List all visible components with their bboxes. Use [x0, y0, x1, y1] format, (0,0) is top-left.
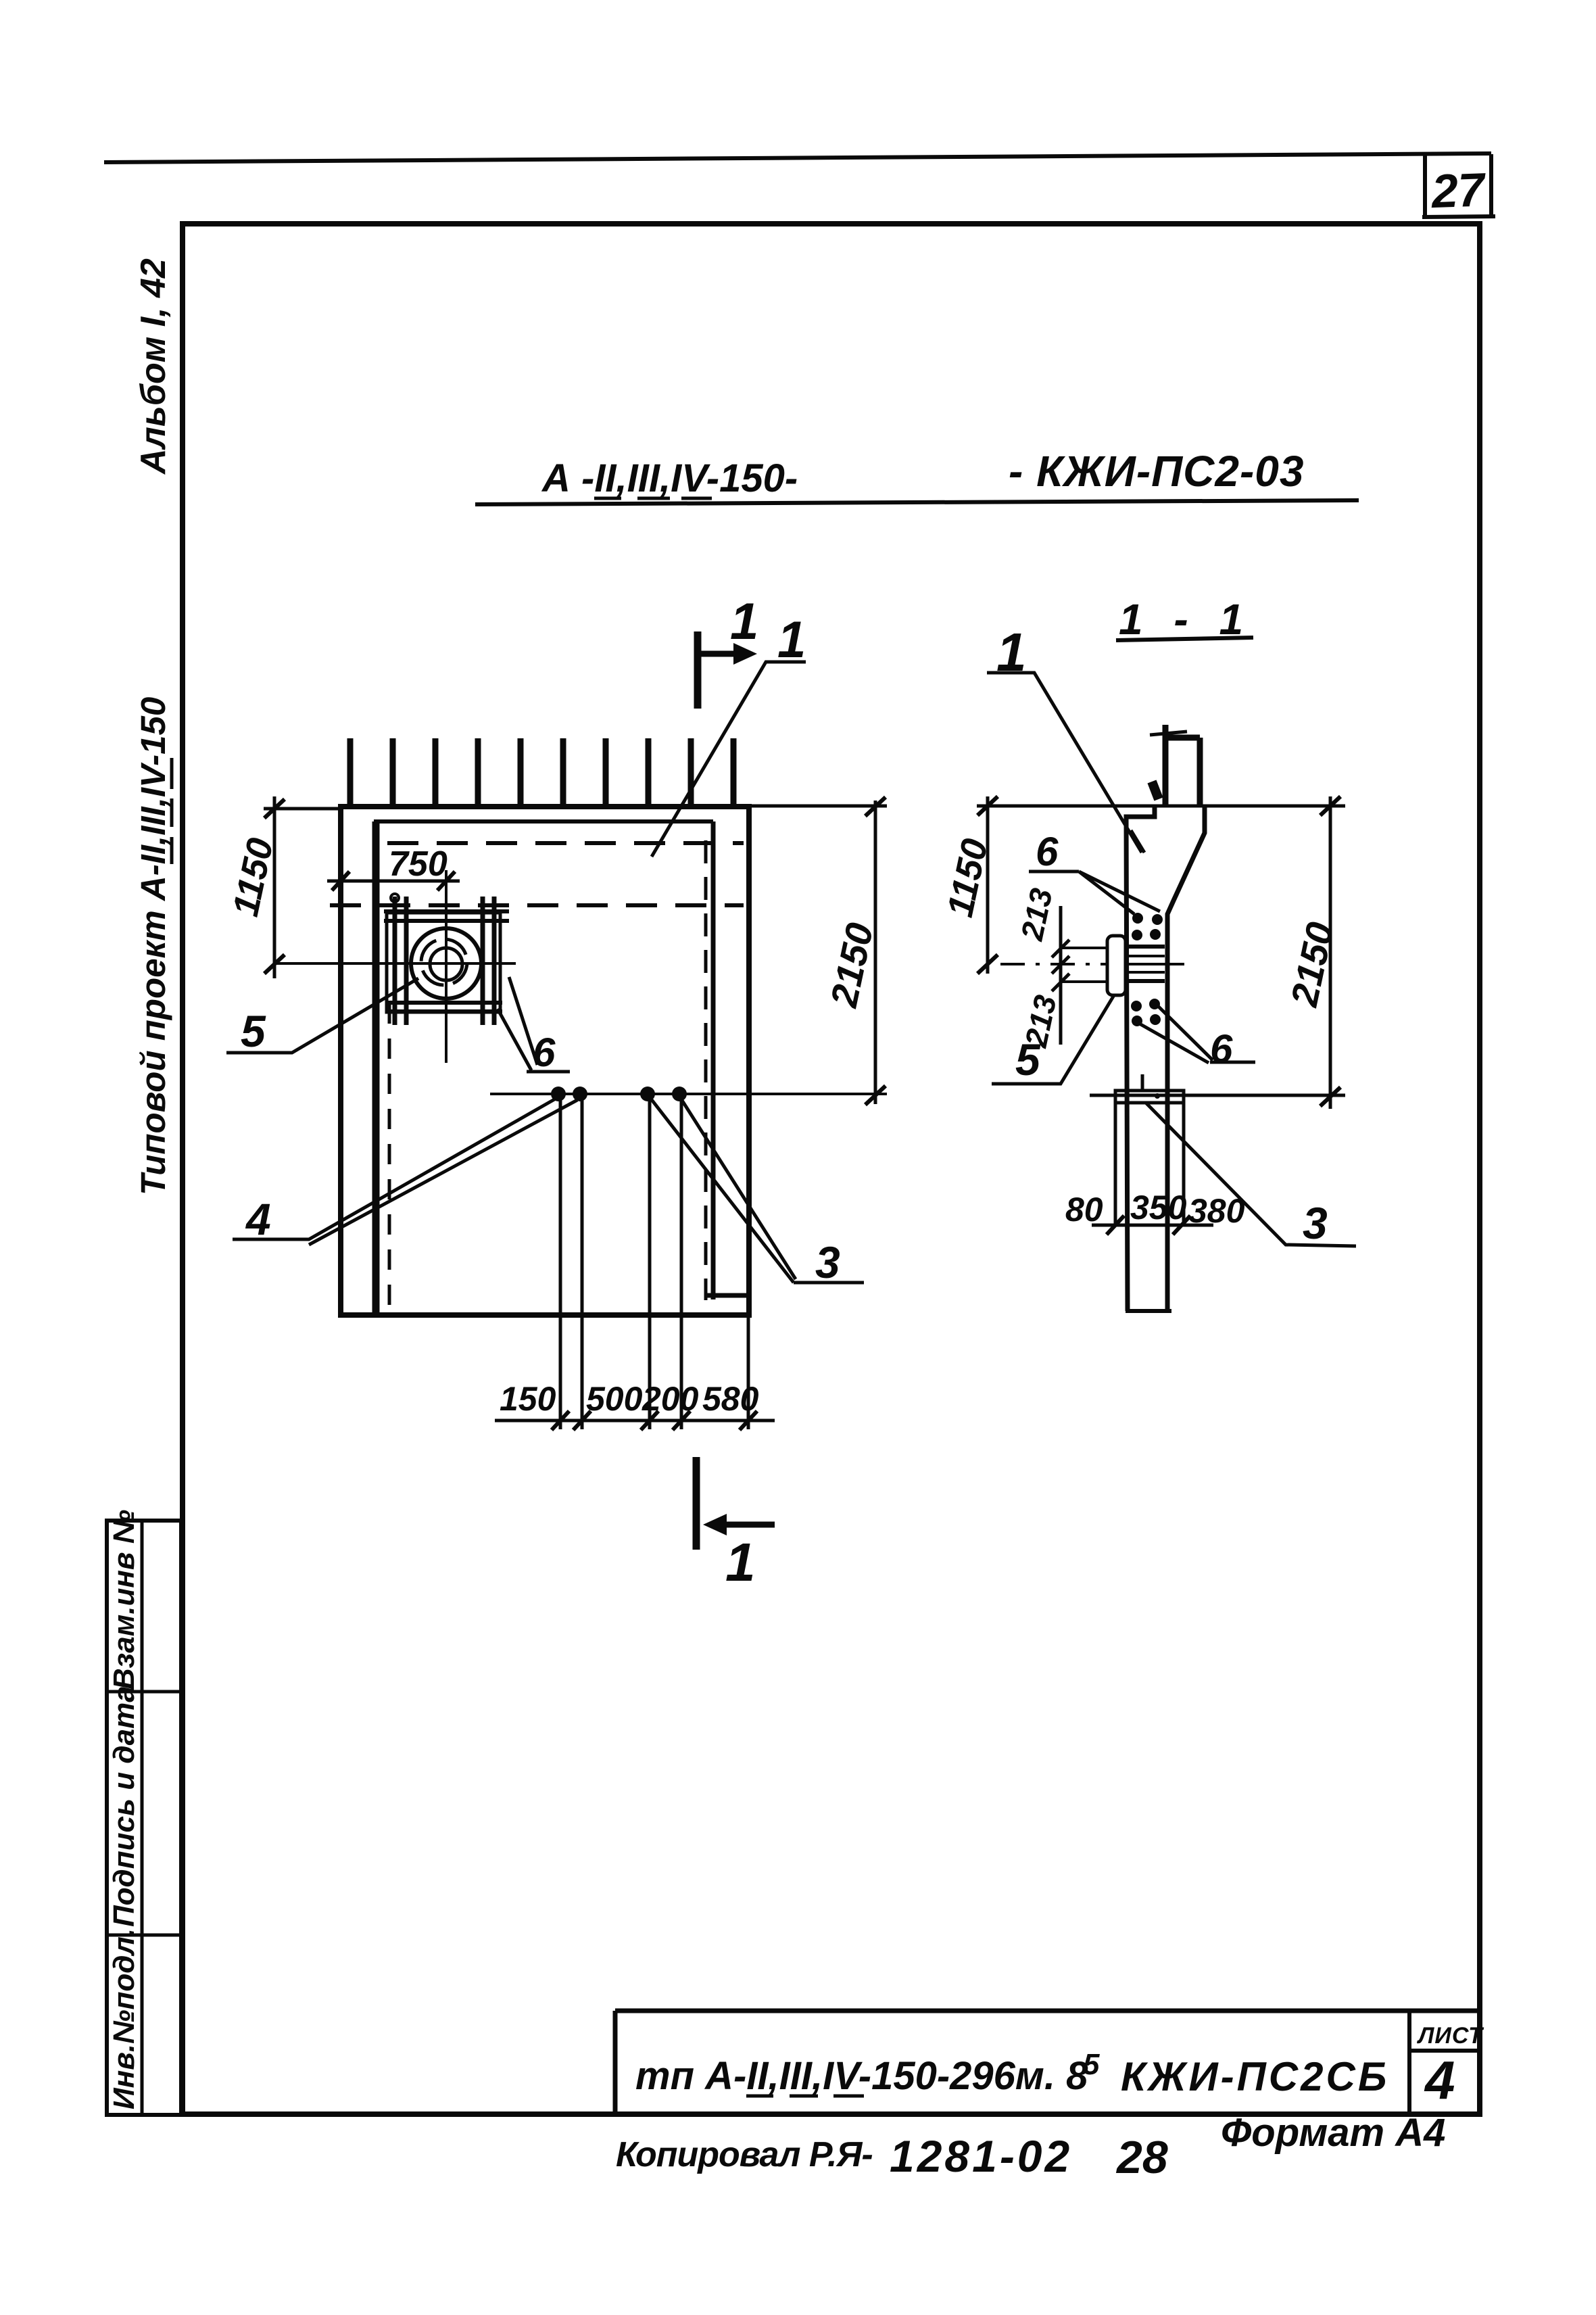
ext line upper plate: [1061, 947, 1109, 949]
dimension 1150 vertical line: [273, 796, 276, 978]
dim 1150 right: line: [986, 796, 990, 974]
label 4 leader: [233, 1099, 577, 1245]
dim 2150 right: line: [1329, 796, 1332, 1109]
bottom dimension line: [495, 1419, 775, 1423]
embed vertical rebar pair right: [483, 897, 494, 1025]
rebar dowel ticks on top: [350, 738, 733, 807]
embed centerline right part: [1126, 963, 1184, 965]
tick: [1052, 956, 1069, 974]
label 1 leader: [987, 673, 1144, 853]
svg-text:Инв.№подл.: Инв.№подл.: [107, 1928, 141, 2109]
numeral underscores title block: [746, 2095, 864, 2098]
strip divider 1: [107, 1690, 181, 1694]
embed vertical centerline: [445, 870, 448, 1063]
tick: [977, 955, 998, 974]
collar sleeve: [1115, 1091, 1184, 1225]
section title underline: [1116, 638, 1253, 640]
tick: [673, 1411, 690, 1430]
svg-text:200: 200: [642, 1380, 699, 1418]
anchor dot a: [551, 1087, 566, 1101]
svg-text:6: 6: [1210, 1026, 1233, 1072]
tick: [1173, 1216, 1190, 1235]
middle circle: [421, 939, 467, 985]
label 6 lower leader: [1137, 1005, 1255, 1063]
dimension 2150 vertical line: [874, 801, 877, 1104]
label 6 upper leader: [1029, 872, 1160, 914]
column top hook: [1165, 725, 1200, 805]
extension verticals from dots: [560, 1094, 681, 1429]
svg-text:3: 3: [1303, 1198, 1328, 1248]
anchor dot b: [573, 1087, 587, 1101]
column outline left: [1126, 805, 1155, 1311]
panel inner rectangle top edge: [374, 819, 713, 824]
anchor dot d: [672, 1087, 687, 1101]
svg-text:тп А-II,III,IV-150-296м. 8: тп А-II,III,IV-150-296м. 8: [635, 2054, 1088, 2098]
svg-text:ЛИСТ: ЛИСТ: [1416, 2023, 1484, 2049]
tick: [1320, 796, 1340, 815]
svg-text:- КЖИ-ПС2-03: - КЖИ-ПС2-03: [1009, 447, 1304, 496]
svg-text:Копировал Р.Я-: Копировал Р.Я-: [616, 2135, 873, 2174]
panel inner right edge: [706, 821, 748, 1299]
svg-text:Подпись и дата: Подпись и дата: [107, 1686, 141, 1927]
arrowhead: [703, 1514, 727, 1535]
tick: [552, 1411, 569, 1430]
svg-text:750: 750: [389, 844, 448, 884]
bottom dim line right view: [1092, 1224, 1213, 1227]
collar center tick: [1141, 1074, 1144, 1092]
tick: [264, 799, 285, 818]
embed horizontal rebar pair bottom: [385, 1003, 502, 1011]
embed line 4: [1126, 979, 1165, 983]
hidden dash line lower left: [388, 1003, 391, 1312]
small circle on rebar top: [391, 894, 399, 902]
ext line lower plate: [1061, 980, 1109, 983]
section mark bottom arrow: [717, 1522, 775, 1528]
tick: [865, 797, 886, 816]
svg-text:1: 1: [725, 1532, 756, 1592]
section mark bottom vertical: [693, 1457, 700, 1550]
panel inner left double line: [372, 821, 380, 1315]
extension line top right: [749, 805, 887, 808]
svg-text:580: 580: [702, 1380, 759, 1418]
embed line 3: [1126, 971, 1165, 974]
inner circle: [430, 948, 462, 980]
top rule line: [104, 153, 1491, 162]
list box divider horizontal: [1409, 2049, 1480, 2053]
hook top tick: [1150, 732, 1187, 735]
label 6 leader: [498, 977, 570, 1072]
anchor dots axis line: [490, 1093, 887, 1095]
left margin rotated text: Типовой проект: [134, 697, 172, 1195]
svg-text:500: 500: [586, 1380, 643, 1418]
column outline right: [1167, 805, 1205, 1311]
svg-text:Взам.инв №: Взам.инв №: [107, 1510, 141, 1690]
section mark top vertical: [694, 631, 702, 709]
hidden dash-dot line near right edge: [704, 840, 708, 1300]
svg-text:1: 1: [777, 611, 806, 669]
section mark top arrow: [701, 651, 740, 657]
dim 213 lines: [1059, 906, 1063, 1045]
tick: [740, 1411, 757, 1430]
svg-text:80: 80: [1065, 1191, 1103, 1228]
label 5 leader: [226, 978, 418, 1053]
svg-text:5: 5: [241, 1006, 266, 1056]
embed plate lines across column: [1126, 945, 1165, 949]
collar band dot: [1155, 1093, 1160, 1099]
hidden dashed line upper: [387, 841, 744, 845]
lifting loop outer circle: [411, 928, 481, 999]
header underline: [475, 500, 1359, 504]
svg-text:150: 150: [500, 1380, 556, 1418]
svg-text:1281-02: 1281-02: [890, 2131, 1072, 2181]
tick: [264, 955, 285, 974]
tick: [1052, 974, 1069, 991]
embed horizontal rebar pair top: [384, 911, 509, 921]
panel outer rectangle: [341, 807, 749, 1315]
title block top line: [615, 2009, 1480, 2013]
top extension line across: [977, 805, 1345, 808]
label 5 leader: [992, 995, 1114, 1084]
svg-text:Типовой проект А-II,III,IV-150: Типовой проект А-II,III,IV-150: [134, 697, 172, 1195]
label 3 leader: [1146, 1103, 1356, 1246]
svg-text:4: 4: [245, 1194, 271, 1244]
tick: [641, 1411, 658, 1430]
svg-text:5: 5: [1083, 2048, 1100, 2081]
list box divider vertical: [1407, 2011, 1411, 2114]
svg-text:А -II,III,IV-150-: А -II,III,IV-150-: [541, 456, 798, 500]
page number box: [1422, 154, 1495, 218]
numeral underscores header: [594, 497, 712, 500]
tick: [332, 872, 349, 890]
tick: [1107, 1216, 1124, 1235]
hidden dashed line lower: [330, 903, 744, 907]
title block left edge: [613, 2011, 618, 2114]
embed vertical rebar pair left: [395, 897, 406, 1025]
svg-text:1: 1: [730, 593, 758, 650]
tick: [977, 796, 998, 815]
leader ink blob: [1152, 782, 1159, 799]
tick: [1052, 940, 1069, 957]
svg-text:КЖИ-ПС2СБ: КЖИ-ПС2СБ: [1121, 2054, 1389, 2099]
extension from panel corner: [747, 1315, 750, 1429]
label 3 leader: [650, 1098, 864, 1283]
panel leader line: [652, 662, 806, 857]
embed centerline: [1000, 963, 1107, 965]
tick: [865, 1086, 886, 1105]
rebar dots upper group: [1132, 913, 1143, 924]
tick: [1320, 1087, 1340, 1106]
embed line 2: [1126, 955, 1165, 957]
svg-text:28: 28: [1115, 2132, 1168, 2183]
embed plate section: [1107, 936, 1126, 995]
bottom extension line of 2150: [1090, 1094, 1345, 1097]
collar band line: [1115, 1101, 1184, 1105]
column bottom edge: [1126, 1309, 1171, 1313]
svg-text:6: 6: [1036, 829, 1059, 874]
tick: [437, 872, 455, 890]
svg-text:380: 380: [1188, 1192, 1245, 1230]
svg-text:Альбом I, 42: Альбом I, 42: [134, 258, 173, 475]
extension line top left: [264, 807, 341, 811]
embed horizontal centerline: [273, 962, 516, 965]
main border frame: [183, 224, 1480, 2114]
svg-text:4: 4: [1424, 2050, 1455, 2110]
svg-text:27: 27: [1430, 163, 1488, 218]
svg-text:6: 6: [533, 1030, 556, 1075]
svg-text:3: 3: [815, 1237, 840, 1287]
anchor dot c: [640, 1087, 655, 1101]
strip vertical divider: [141, 1521, 144, 2115]
arrowhead: [733, 643, 757, 665]
tick: [573, 1411, 591, 1430]
rebar dots lower group: [1131, 1001, 1142, 1011]
dimension 750 line: [327, 880, 460, 883]
strip outer: [107, 1521, 181, 2115]
strip divider 2: [107, 1934, 181, 1937]
embed plate square: [387, 913, 500, 1012]
svg-text:Формат А4: Формат А4: [1221, 2111, 1445, 2155]
svg-text:350: 350: [1130, 1189, 1187, 1226]
